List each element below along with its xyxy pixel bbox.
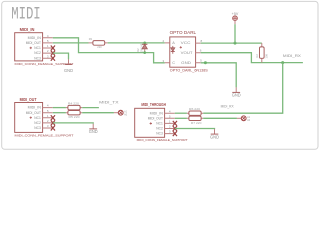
svg-text:MIDI: MIDI <box>11 5 41 25</box>
wire VCC net from U2 pin8 to pull-up resistor <box>201 42 262 44</box>
svg-text:GND: GND <box>89 129 98 134</box>
svg-text:MIDI_IN: MIDI_IN <box>20 27 35 32</box>
resistor R5 220 <box>66 111 82 120</box>
wire MIDI_RX branch down to R6 <box>203 63 283 114</box>
svg-text:MIDI_CONN_FEMALE_SUPPORT: MIDI_CONN_FEMALE_SUPPORT <box>15 134 74 138</box>
svg-text:OPTO DARL: OPTO DARL <box>170 30 197 35</box>
wire J2 pin5 to resistor R5 <box>53 112 66 114</box>
wire J2 pin2 to ground <box>53 122 93 125</box>
svg-text:NC1: NC1 <box>34 46 41 50</box>
no-connect X marks on J2 pins 1 2 3 <box>51 115 55 130</box>
wire MIDI_TX stub from R4 <box>82 107 99 109</box>
opto-coupler U2 body 6N138 <box>170 37 196 67</box>
svg-text:1N4148: 1N4148 <box>141 43 143 52</box>
svg-text:GND: GND <box>64 68 73 73</box>
svg-text:MIDI_RX: MIDI_RX <box>283 53 301 58</box>
pad P2 (wire pad circle) <box>237 116 251 122</box>
svg-text:R2: R2 <box>255 54 259 58</box>
svg-text:MIDI_RX: MIDI_RX <box>221 105 234 109</box>
junction at U2 pin5 <box>204 61 207 64</box>
wire J3 pin5 to resistor R7 <box>175 117 187 119</box>
wire +5V to VCC net <box>234 24 236 43</box>
resistor R6 220 <box>187 108 203 115</box>
svg-text:MIDI_OUT: MIDI_OUT <box>148 116 164 120</box>
svg-text:MIDI_TX: MIDI_TX <box>99 100 119 105</box>
svg-text:220: 220 <box>97 45 102 49</box>
svg-text:R5 220: R5 220 <box>69 116 81 119</box>
svg-text:NC3: NC3 <box>34 126 41 130</box>
wire J1 pin4 to opto pin C (net MIDI in current loop low) <box>53 38 165 63</box>
connector J2 pins with numbers 4 5 1 2 3 <box>43 104 53 128</box>
svg-text:GND: GND <box>181 61 191 65</box>
no-connect X marks on J3 pins 1 2 3 <box>173 121 177 136</box>
junction on VCC net at +5V drop <box>234 42 237 45</box>
svg-text:R3: R3 <box>89 37 93 41</box>
connector J3 MIDI_THROUGH DIN body <box>135 108 165 137</box>
resistor R3 220 <box>89 37 108 49</box>
ground GND under R5 <box>89 124 98 134</box>
svg-text:MIDI_OUT: MIDI_OUT <box>20 97 37 102</box>
svg-text:MIDI_IN: MIDI_IN <box>28 106 42 110</box>
svg-text:MIDI_OUT: MIDI_OUT <box>26 111 42 115</box>
no-connect X marks on J1 pins 1 2 3 <box>51 46 55 61</box>
wire J1 pin5 to resistor R3 <box>53 42 89 44</box>
wire R3 to opto pin A <box>108 42 165 44</box>
wire R5 to pad <box>82 112 114 114</box>
svg-text:A: A <box>172 41 175 45</box>
wire R7 to pad P2 <box>203 117 237 119</box>
svg-text:R6 220: R6 220 <box>189 108 201 111</box>
diode D2 1N4148 across opto LED <box>136 42 147 54</box>
ground GND under J1 <box>64 59 73 73</box>
svg-text:+5V: +5V <box>232 12 240 16</box>
svg-text:NC2: NC2 <box>156 127 163 131</box>
ground GND under J3 pins <box>210 129 219 139</box>
svg-text:MIDI_CONN_FEMALE_SUPPORT: MIDI_CONN_FEMALE_SUPPORT <box>137 138 188 142</box>
svg-text:GND: GND <box>232 93 241 98</box>
svg-text:MIDI_IN: MIDI_IN <box>28 36 42 40</box>
svg-text:NC2: NC2 <box>34 51 41 55</box>
ground GND below U2 <box>232 87 241 97</box>
svg-text:R4 220: R4 220 <box>68 102 80 105</box>
svg-text:NC3: NC3 <box>34 56 41 60</box>
connector J1 pins with numbers 4 5 1 2 3 <box>43 34 53 58</box>
wire J3 pin2 to ground <box>175 128 215 131</box>
svg-text:MIDI_THROUGH: MIDI_THROUGH <box>141 102 166 107</box>
svg-text:OPTO_DARL_6N138S: OPTO_DARL_6N138S <box>170 69 209 73</box>
wire U2 pin5 GND to ground <box>201 63 237 88</box>
junction MIDI_RX branch down <box>281 61 284 64</box>
svg-text:NC1: NC1 <box>34 116 41 120</box>
svg-text:R7 220: R7 220 <box>191 122 202 125</box>
svg-text:MIDI_IN: MIDI_IN <box>150 111 164 115</box>
opto U2 pins 2 and 3 stubs on left <box>163 39 170 63</box>
svg-text:10K: 10K <box>265 54 269 59</box>
connector J2 MIDI_OUT DIN body <box>15 103 43 133</box>
supply symbol +5V <box>232 12 240 24</box>
svg-text:VOUT: VOUT <box>181 51 194 55</box>
wire J3 pin4 to resistor R6 <box>175 112 187 114</box>
svg-text:NC3: NC3 <box>156 132 163 136</box>
connector J1 MIDI_IN DIN body <box>15 33 43 61</box>
wire J2 pin4 to resistor R4 <box>53 107 66 109</box>
resistor R7 220 <box>187 116 203 125</box>
svg-text:MIDI_OUT: MIDI_OUT <box>26 41 42 45</box>
opto U2 pins 8 6 5 stubs on right <box>196 39 203 63</box>
svg-text:D2: D2 <box>136 48 140 52</box>
svg-text:NC1: NC1 <box>156 122 163 126</box>
svg-text:GND: GND <box>210 134 219 139</box>
wire MIDI_RX net from U2 pin6 VOUT <box>201 53 303 63</box>
wire J1 pin2 to ground <box>53 53 69 59</box>
resistor R4 220 <box>66 102 82 110</box>
svg-text:VCC: VCC <box>181 41 191 45</box>
svg-text:C: C <box>172 61 175 65</box>
svg-text:NC2: NC2 <box>34 121 41 125</box>
svg-text:MIDI_CONN_FEMALE_SUPPORT: MIDI_CONN_FEMALE_SUPPORT <box>15 62 74 66</box>
pad P1 (wire pad circle) <box>114 110 128 116</box>
pull-up resistor R2 <box>255 43 268 63</box>
connector J3 pins with numbers 4 5 1 2 3 <box>165 109 175 133</box>
